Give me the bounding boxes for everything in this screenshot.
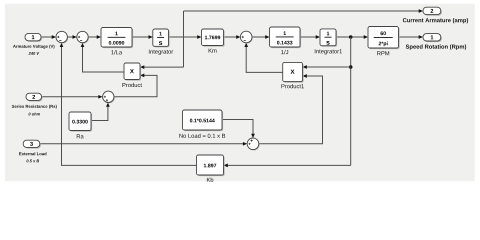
label Current Armature (amp)	[403, 18, 468, 23]
label Product1	[281, 84, 303, 88]
inport 1 Armature Voltage	[25, 33, 42, 42]
label Kb	[207, 178, 213, 182]
wire: 1/La to Integrator	[132, 35, 153, 39]
annotation 0 ohm	[29, 113, 40, 116]
wire: Integrator to Km	[169, 35, 202, 39]
operator X	[291, 70, 295, 74]
wire: sum S2 to block 1/La	[88, 35, 101, 39]
label Km	[209, 49, 217, 53]
wire: speed vertical down x=350.7	[350, 37, 352, 165]
block Km	[202, 29, 225, 47]
wire: inport1 to sum S1	[41, 35, 56, 39]
block NoLoad	[183, 110, 224, 131]
wire: Kb output to sum S1 bottom	[60, 43, 197, 166]
wire: branch into Product top input	[140, 65, 184, 69]
block Kb	[197, 155, 225, 176]
wire: Product output to sum S2 bottom	[81, 43, 124, 72]
sum S2	[77, 31, 89, 43]
wire: sum S1 to sum S2	[67, 35, 76, 39]
block 1/J	[270, 27, 302, 48]
label No Load = 0.1 x B	[179, 134, 225, 138]
value 0.3300	[72, 120, 87, 124]
wire: inport 3 to sum S5	[40, 142, 247, 146]
outport 2 Current Armature	[423, 7, 442, 16]
wire: 1/J to Integrator1	[300, 35, 320, 39]
junction dot: speed to Product1	[349, 65, 353, 69]
operator X	[130, 69, 134, 73]
block Ra	[69, 112, 92, 132]
label RPM	[377, 51, 389, 55]
inport 3 External Load	[23, 140, 41, 148]
sum S1	[56, 31, 68, 43]
value 1.897	[204, 164, 216, 168]
label 1/J	[281, 50, 288, 54]
wire: Integrator1 to RPM	[336, 35, 368, 39]
label 1/La	[111, 50, 122, 54]
value 1.7699	[205, 36, 220, 40]
label Integrator	[149, 50, 173, 55]
wire: NoLoad output to sum S5 top	[222, 120, 255, 139]
sum S4	[103, 91, 115, 103]
wire: Ra output to sum S4 bottom	[91, 103, 110, 121]
sum S5	[247, 138, 259, 150]
outport 1 Speed Rotation	[423, 34, 442, 43]
wire: top run to outport 2	[184, 9, 424, 13]
wire: sum S4 output to Product bottom input	[114, 74, 157, 97]
block Product1	[283, 62, 304, 82]
junction dot: speed node	[349, 35, 353, 39]
wire: Product1 output to sum S3 bottom	[244, 43, 282, 73]
label Product	[122, 83, 141, 87]
block 1/La	[101, 28, 133, 49]
value 0.1*0.5144	[190, 119, 215, 123]
label External Load	[19, 152, 46, 155]
sum S3	[240, 31, 252, 43]
wire: RPM to outport 1	[399, 35, 424, 39]
block Product	[124, 63, 141, 81]
label Speed Rotation (Rpm)	[406, 44, 466, 49]
canvas background	[0, 0, 480, 186]
label Armature Voltage (V)	[13, 45, 54, 49]
annotation 0.5 x B	[27, 160, 40, 163]
block Integrator1	[320, 29, 337, 47]
label Integrator1	[315, 49, 342, 54]
inport 2 Series Resistance	[26, 93, 43, 101]
label Ra	[77, 134, 84, 138]
wire: current branch vertical at x=183.5	[183, 11, 185, 67]
block RPM	[368, 27, 400, 50]
wire: sum S3 to block 1/J	[252, 35, 269, 39]
wire: sum S5 output to Product1 bottom input	[259, 74, 323, 144]
wire: Km to sum S3	[224, 35, 241, 39]
wire: branch into Product1 top input	[303, 65, 351, 69]
wire: inport 2 to sum S4	[42, 95, 103, 99]
wire: speed down into Kb input	[224, 164, 351, 168]
annotation 240 V	[29, 52, 40, 55]
block Integrator	[153, 29, 170, 47]
label Series Resistance (Rs)	[12, 105, 57, 109]
